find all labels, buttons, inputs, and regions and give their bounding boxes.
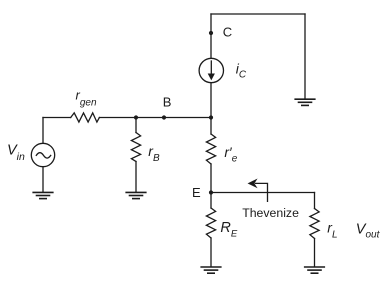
wire: V_in bottom lead — [42, 167, 44, 192]
resistor r_gen — [71, 113, 100, 122]
wire: emitter column middle — [210, 164, 212, 208]
Thevenize arrow — [248, 179, 267, 201]
wire: r_B bottom lead — [135, 162, 137, 192]
svg-text:E: E — [192, 185, 201, 200]
ground (top right) — [295, 99, 315, 105]
wire: R_E bottom lead — [210, 238, 212, 266]
node E — [209, 190, 213, 194]
wire: collector upper segment — [210, 14, 212, 58]
svg-text:r′e: r′e — [224, 144, 237, 164]
wire: right drop to ground — [304, 14, 306, 99]
svg-text:iC: iC — [236, 61, 247, 81]
source V_in — [31, 143, 54, 166]
node C — [209, 31, 213, 35]
resistor r_B — [131, 133, 140, 162]
svg-text:rL: rL — [327, 220, 337, 241]
wire: r_L bottom lead — [314, 239, 316, 267]
svg-text:rB: rB — [148, 143, 160, 164]
node (r_B tap) — [134, 115, 138, 119]
resistor r_L — [310, 209, 319, 239]
wire: E row horizontal — [211, 192, 315, 194]
wire: r_L drop — [314, 193, 316, 209]
svg-text:Vin: Vin — [7, 142, 25, 163]
ground (r_B) — [126, 192, 146, 198]
wire: B row horizontal left — [43, 117, 71, 119]
ground (R_E) — [201, 267, 221, 273]
svg-text:Vout: Vout — [356, 221, 381, 240]
wire: emitter column upper — [210, 118, 212, 135]
wire: B row horizontal right — [99, 117, 211, 119]
wire: V_in top lead — [42, 118, 44, 144]
node B — [162, 115, 166, 119]
ground (r_L) — [305, 267, 325, 273]
wire: collector lower segment — [210, 83, 212, 118]
node (collector junction) — [209, 115, 213, 119]
svg-text:RE: RE — [220, 220, 237, 239]
wire: top rail from collector to right ground — [211, 13, 305, 15]
svg-text:B: B — [163, 94, 172, 109]
current source i_C — [199, 58, 223, 82]
svg-text:rgen: rgen — [76, 87, 97, 108]
svg-text:Thevenize: Thevenize — [242, 206, 299, 220]
resistor R_E — [206, 208, 215, 238]
wire: r_B top lead — [135, 118, 137, 133]
resistor r'_e — [206, 134, 215, 164]
svg-text:C: C — [223, 25, 232, 40]
ground (V_in) — [33, 192, 53, 198]
